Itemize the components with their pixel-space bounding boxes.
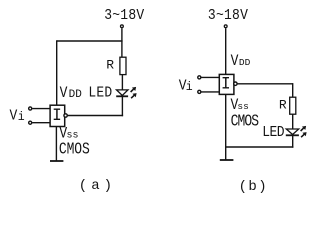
- svg-text:i: i: [186, 81, 193, 94]
- input label Vi (a): [10, 108, 25, 125]
- svg-text:ss: ss: [67, 131, 79, 142]
- supply label 3~18V (b): [208, 8, 249, 24]
- wire: output corner down to resistor (b): [292, 83, 294, 97]
- pin label Vss (b): [231, 97, 249, 114]
- pin label VDD (a): [60, 85, 83, 102]
- svg-text:I: I: [221, 74, 231, 94]
- pin label VDD (b): [231, 53, 251, 70]
- input terminal top (b): [198, 76, 201, 79]
- label LED (b): [262, 124, 284, 141]
- wire: top horizontal branch (a): [57, 40, 123, 42]
- svg-text:DD: DD: [69, 89, 83, 101]
- wire: gate output horizontal (b): [238, 83, 293, 85]
- input label Vi (b): [179, 78, 193, 95]
- wire: top input (b): [201, 76, 219, 78]
- svg-text:(a): (a): [79, 178, 116, 194]
- label CMOS (a): [59, 141, 90, 159]
- ground bar (a): [50, 160, 63, 162]
- output bubble (a): [64, 114, 67, 117]
- input terminal bottom (b): [198, 90, 201, 93]
- caption (a): [79, 178, 116, 194]
- svg-text:LED: LED: [262, 124, 284, 141]
- resistor R (b): [290, 97, 296, 114]
- wire: gate Vss down to ground (a): [55, 127, 57, 162]
- LED diode symbol (b): [286, 129, 299, 135]
- caption (b): [239, 179, 268, 195]
- input terminal bottom (a): [29, 121, 32, 124]
- svg-text:V: V: [231, 53, 239, 70]
- svg-text:(b): (b): [239, 179, 268, 195]
- wire: terminal down to resistor (a): [121, 28, 123, 57]
- wire: resistor to LED anode (a): [121, 75, 123, 90]
- supply terminal (a): [121, 25, 124, 28]
- inverter gate U1 box (a): [50, 105, 65, 126]
- wire: left vertical to VDD pin of gate (a): [56, 40, 58, 105]
- svg-text:R: R: [106, 58, 114, 73]
- svg-text:R: R: [279, 97, 287, 112]
- output bubble (b): [234, 82, 237, 85]
- svg-text:LED: LED: [88, 85, 112, 102]
- wire: terminal down to gate VDD pin (b): [225, 28, 227, 74]
- LED diode symbol (a): [116, 90, 128, 96]
- svg-text:i: i: [18, 111, 25, 124]
- svg-text:ss: ss: [237, 101, 248, 112]
- svg-text:DD: DD: [239, 57, 251, 68]
- ground bar (b): [220, 159, 234, 161]
- svg-text:V: V: [60, 85, 68, 102]
- svg-text:CMOS: CMOS: [59, 141, 90, 159]
- wire: LED cathode down to bottom rail (b): [292, 135, 294, 147]
- wire: LED cathode down to output wire (a): [121, 96, 123, 116]
- resistor R (a): [120, 57, 126, 74]
- inverter gate U2 box (b): [219, 74, 234, 94]
- value label R (b): [279, 97, 287, 112]
- supply terminal (b): [224, 25, 227, 28]
- pin label Vss (a): [59, 126, 78, 143]
- input terminal top (a): [29, 107, 32, 110]
- svg-text:V: V: [10, 108, 18, 125]
- wire: gate Vss down to ground (b): [225, 94, 227, 160]
- LED emission arrows (b): [301, 126, 307, 137]
- supply label 3~18V (a): [104, 8, 145, 24]
- label LED (a): [88, 85, 112, 102]
- wire: gate output horizontal (a): [68, 115, 124, 117]
- wire: bottom input (b): [201, 91, 219, 93]
- wire: top input (a): [32, 108, 50, 110]
- svg-text:I: I: [52, 106, 62, 126]
- label CMOS (b): [231, 113, 260, 131]
- wire: bottom rail (b): [226, 146, 294, 148]
- wire: bottom input (a): [32, 122, 50, 124]
- svg-text:3~18V: 3~18V: [104, 8, 145, 24]
- wire: resistor to LED anode (b): [292, 114, 294, 129]
- value label R (a): [106, 58, 114, 73]
- LED emission arrows (a): [131, 87, 137, 98]
- svg-text:3~18V: 3~18V: [208, 8, 249, 24]
- svg-text:CMOS: CMOS: [231, 113, 260, 131]
